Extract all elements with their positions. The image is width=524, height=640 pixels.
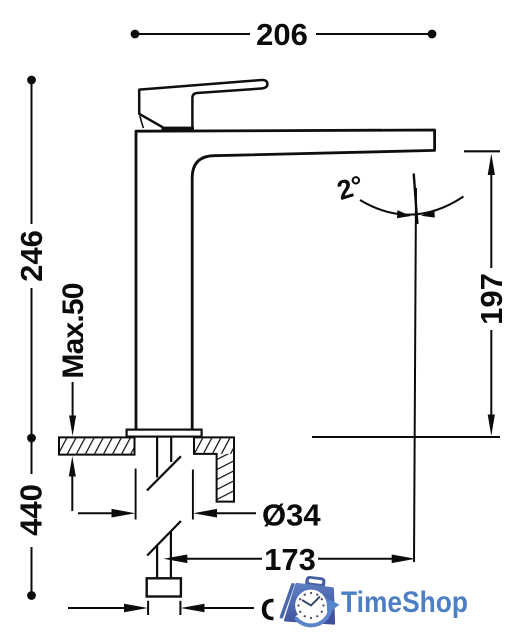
handle front crease line bbox=[140, 116, 144, 129]
left dimension line segment d bbox=[31, 547, 33, 592]
left dimension line: middle dot bbox=[27, 434, 36, 443]
diameter 34 left arrowhead bbox=[112, 509, 136, 518]
dimension 173 left arrowhead bbox=[164, 555, 188, 564]
logo bag body bbox=[285, 584, 334, 623]
nut dimension left tick bbox=[147, 601, 149, 615]
left dimension line segment b bbox=[31, 288, 33, 434]
svg-text:Ø34: Ø34 bbox=[262, 498, 321, 533]
diameter 34 right extension line bbox=[192, 470, 194, 520]
logo clock hands bbox=[303, 597, 320, 606]
supply pipe upper right line bbox=[170, 437, 172, 462]
logo swoosh white gap bbox=[297, 607, 328, 623]
svg-text:206: 206 bbox=[256, 17, 308, 52]
2 degree arc bbox=[360, 197, 464, 215]
counter left hatched block bbox=[59, 437, 135, 454]
dimension 206 top: right line segment bbox=[316, 33, 429, 35]
left dimension line segment c bbox=[31, 442, 33, 474]
diameter 34 right arrowhead bbox=[193, 509, 217, 518]
logo bag handle bbox=[305, 575, 326, 589]
nut dimension right arrowhead bbox=[181, 604, 205, 613]
faucet body and spout outline bbox=[136, 130, 435, 431]
diameter 34 left extension line bbox=[135, 469, 137, 520]
thick seat band under handle bbox=[162, 127, 195, 132]
counter level reference line bbox=[312, 436, 500, 438]
svg-text:246: 246 bbox=[14, 230, 49, 282]
diameter 34 left arrow line bbox=[78, 512, 114, 514]
left dimension line: bottom dot bbox=[27, 591, 36, 600]
svg-text:TimeShop: TimeShop bbox=[341, 586, 468, 619]
break line 1 bbox=[147, 456, 181, 490]
2 degree tilted line bbox=[414, 174, 418, 225]
left dimension line segment a bbox=[31, 83, 33, 224]
handle lever bbox=[139, 80, 267, 128]
dimension 197 line lower bbox=[490, 330, 492, 418]
dimension 197 line upper bbox=[490, 172, 492, 268]
logo bag stripe bbox=[282, 585, 293, 617]
dimension 197 top arrowhead bbox=[488, 154, 495, 176]
svg-text:Max.50: Max.50 bbox=[57, 283, 90, 378]
logo clock ticks bbox=[297, 592, 324, 619]
nut dimension left arrow line bbox=[68, 607, 126, 609]
faucet outlet reference tick bbox=[464, 150, 500, 152]
dimension 173 right line bbox=[318, 558, 393, 560]
supply pipe lower right line bbox=[170, 532, 172, 579]
2 degree arc left arrowhead bbox=[397, 210, 411, 218]
supply pipe upper left line bbox=[156, 437, 158, 478]
break line 2 bbox=[147, 521, 181, 556]
mounting nut bbox=[147, 578, 181, 596]
2 degree arc right arrowhead bbox=[421, 210, 435, 218]
svg-text:173: 173 bbox=[264, 542, 316, 577]
partially hidden G label bbox=[261, 592, 285, 627]
dimension 206 top: left dot bbox=[131, 30, 140, 39]
nut dimension right arrow line bbox=[203, 607, 254, 609]
Max.50 up arrow line bbox=[71, 476, 73, 511]
dimension 206 top: left line segment bbox=[138, 33, 250, 35]
Max.50 down arrowhead bbox=[69, 416, 76, 437]
base flange bbox=[127, 430, 202, 437]
counter right hatched L block vertical strip fill bbox=[217, 454, 234, 502]
svg-text:G: G bbox=[261, 592, 285, 627]
Max.50 up arrowhead bbox=[69, 456, 76, 477]
dimension 197 bottom arrowhead bbox=[488, 415, 495, 437]
logo swoosh bbox=[295, 608, 330, 625]
svg-text:197: 197 bbox=[474, 273, 509, 325]
dimension 173 right arrowhead bbox=[392, 555, 416, 564]
Max.50 down arrow line bbox=[72, 382, 74, 417]
dimension 173 left line bbox=[186, 558, 262, 560]
nut dimension right tick bbox=[179, 601, 181, 615]
svg-text:440: 440 bbox=[14, 484, 49, 536]
counter right hatched L block outline bbox=[194, 437, 234, 501]
counter right hatched L block top part fill bbox=[194, 437, 234, 454]
logo swoosh arrowhead bbox=[326, 598, 340, 614]
vertical axis line through spout outlet bbox=[414, 188, 416, 562]
left dimension line: top dot bbox=[27, 76, 36, 85]
nut dimension left arrowhead bbox=[124, 604, 148, 613]
logo clock face bbox=[295, 590, 327, 622]
dimension 206 top: right dot bbox=[428, 30, 437, 39]
supply pipe lower left line bbox=[156, 546, 158, 579]
diameter 34 right arrow line bbox=[215, 512, 256, 514]
